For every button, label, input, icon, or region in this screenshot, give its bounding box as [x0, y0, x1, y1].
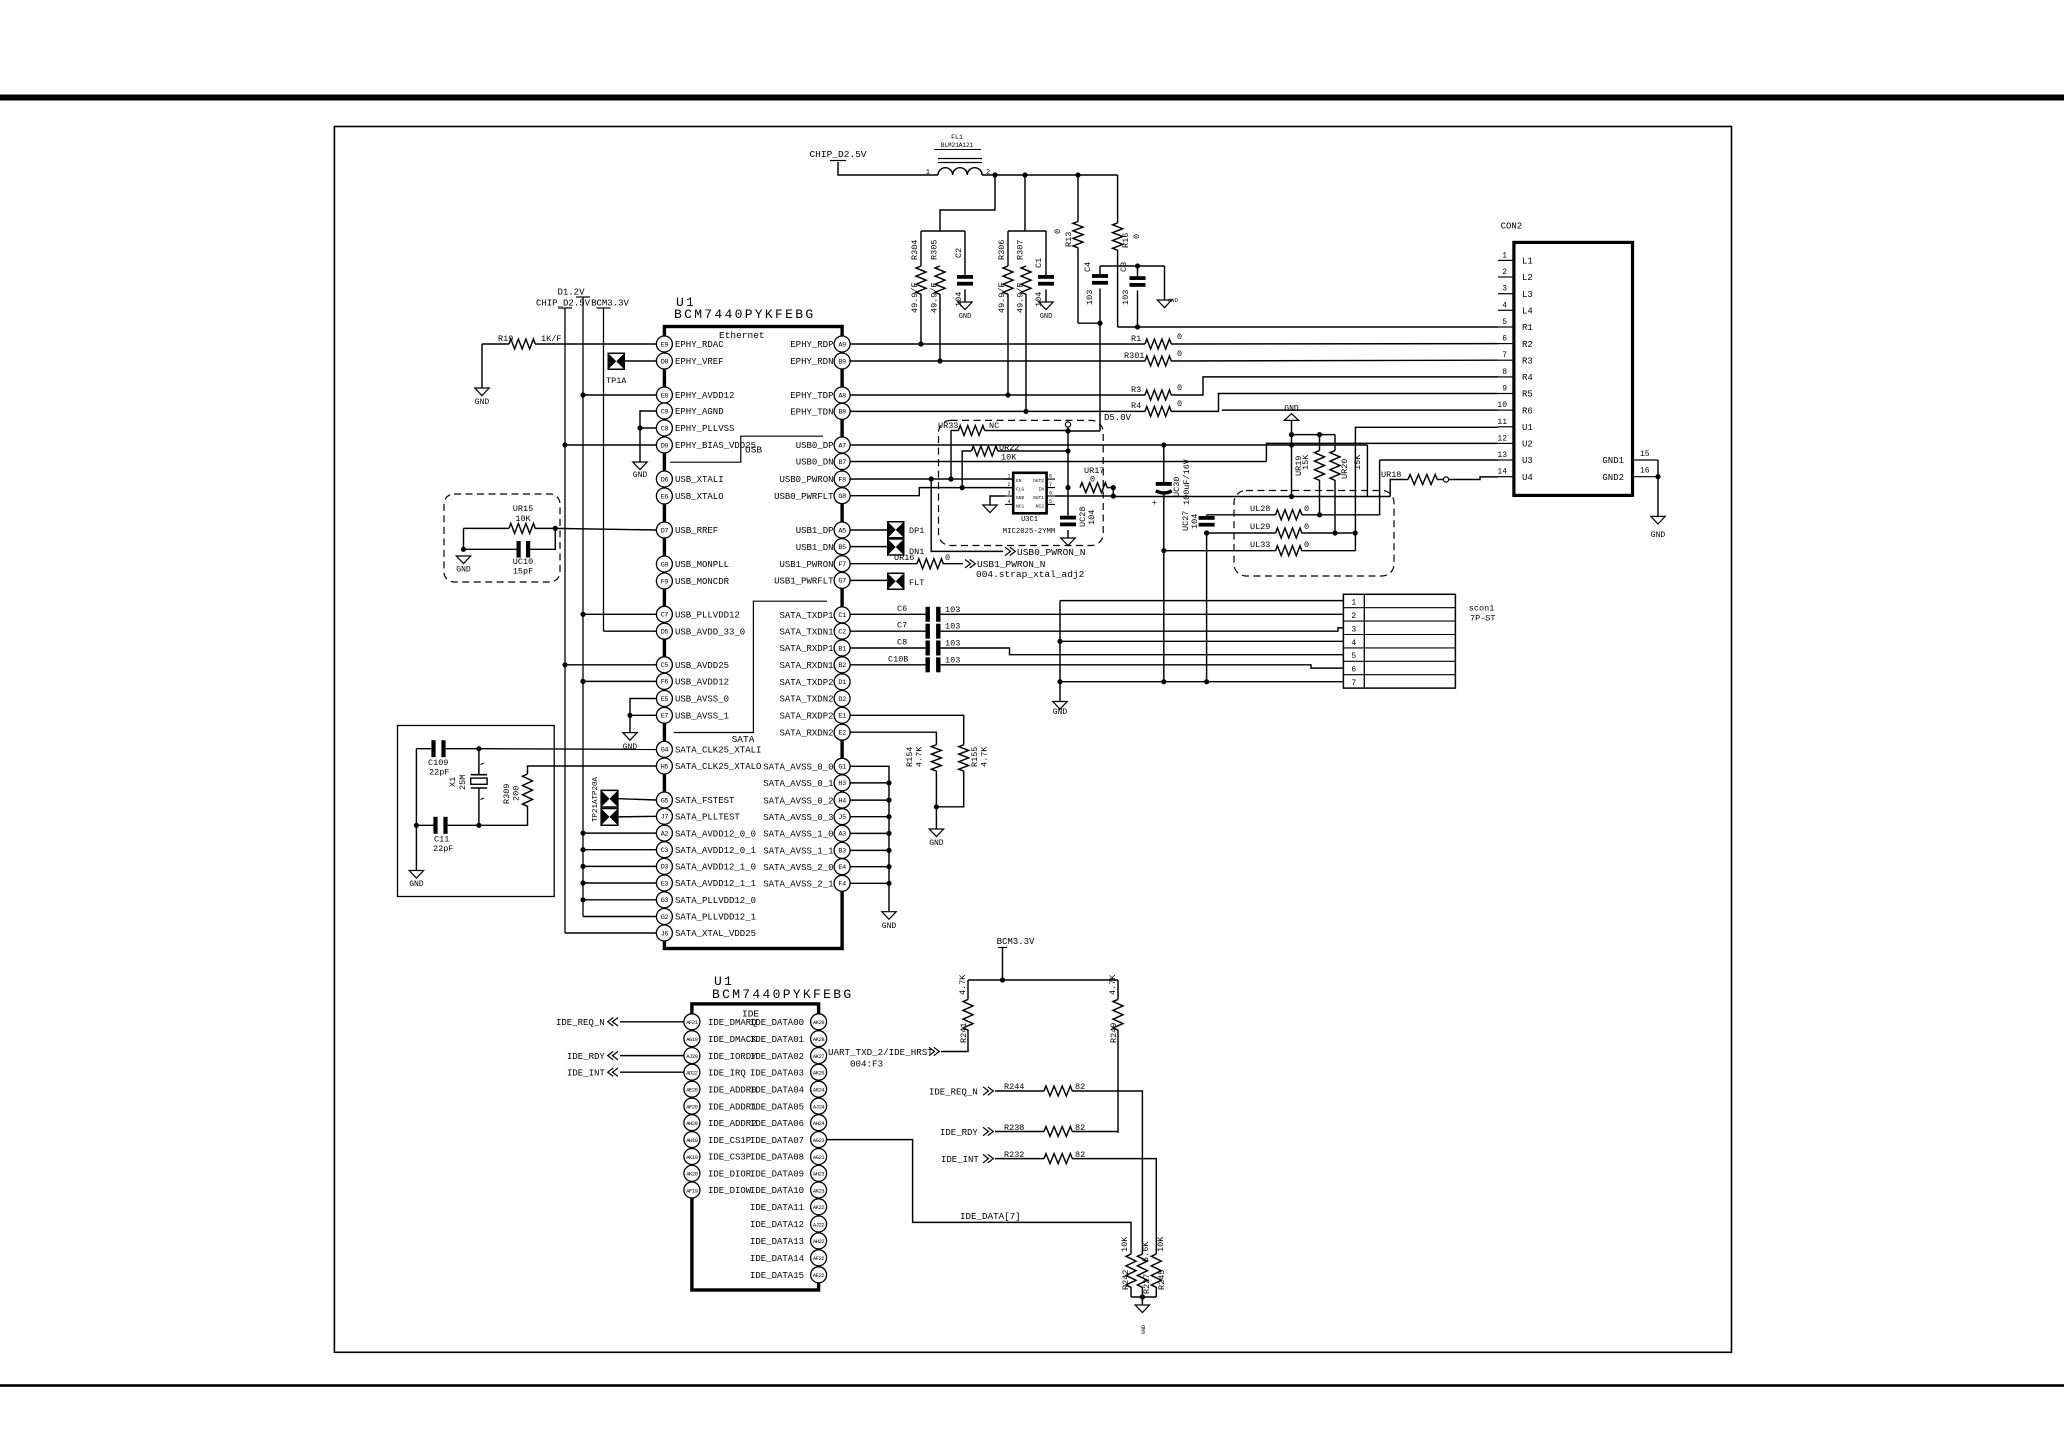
- svg-text:NC1: NC1: [1016, 504, 1025, 510]
- svg-text:E3: E3: [661, 880, 669, 888]
- pin C9 EPHY_AGND: [656, 403, 672, 419]
- pin B2 SATA_RXDN1: [834, 657, 850, 673]
- svg-text:IDE_INT: IDE_INT: [567, 1069, 605, 1079]
- svg-text:SATA_RXDP2: SATA_RXDP2: [779, 712, 833, 722]
- pin AH22 IDE_DATA13: [811, 1233, 827, 1249]
- svg-text:SATA_AVDD12_1_0: SATA_AVDD12_1_0: [675, 863, 756, 873]
- svg-text:A2: A2: [661, 830, 669, 838]
- wire crystal top row: [446, 748, 479, 750]
- pin AF19 IDE_DIOW: [684, 1182, 700, 1198]
- pin B8 EPHY_TDN: [834, 403, 850, 419]
- pin F6 USB_AVDD12: [656, 673, 672, 689]
- svg-text:SATA_PLLTEST: SATA_PLLTEST: [675, 813, 740, 823]
- pin AK27 IDE_DATA02: [811, 1048, 827, 1064]
- svg-text:10: 10: [1497, 401, 1507, 410]
- wire AVSS pin to bus: [850, 816, 889, 818]
- svg-text:USB_MONCDR: USB_MONCDR: [675, 577, 730, 587]
- svg-text:0: 0: [945, 553, 950, 563]
- svg-text:SATA_CLK25_XTALO: SATA_CLK25_XTALO: [675, 762, 761, 772]
- svg-text:USB_PLLVDD12: USB_PLLVDD12: [675, 611, 740, 621]
- svg-text:GND: GND: [929, 839, 944, 848]
- svg-text:0: 0: [1177, 399, 1182, 409]
- svg-text:L3: L3: [1522, 290, 1533, 300]
- svg-text:GND: GND: [882, 922, 897, 931]
- svg-text:0: 0: [1304, 540, 1309, 550]
- pin A5 USB1_DP: [834, 522, 850, 538]
- pin E5 USB_AVSS_0: [656, 691, 672, 707]
- svg-text:G8: G8: [838, 493, 846, 501]
- svg-text:5: 5: [1049, 499, 1052, 505]
- svg-text:C2: C2: [838, 629, 846, 637]
- svg-text:D2: D2: [838, 696, 846, 704]
- svg-text:R5: R5: [1522, 390, 1533, 400]
- ground (R19): [475, 388, 489, 396]
- wires UC10: [464, 528, 517, 549]
- svg-text:AK24: AK24: [813, 1088, 825, 1094]
- svg-text:B1: B1: [838, 645, 846, 653]
- CON2 pin 14 U4: [1498, 476, 1514, 478]
- svg-text:IDE_DATA11: IDE_DATA11: [750, 1203, 804, 1213]
- svg-text:SATA_AVSS_0_0: SATA_AVSS_0_0: [763, 763, 833, 773]
- svg-text:C6: C6: [897, 604, 907, 614]
- pin E4 SATA_AVSS_2_0: [834, 859, 850, 875]
- pin AJ20 IDE_IORDY: [684, 1048, 700, 1064]
- wire OUT1/UR17 node to right: [1113, 496, 1390, 498]
- svg-text:GND: GND: [959, 313, 972, 321]
- svg-text:C1: C1: [838, 612, 846, 620]
- svg-text:10K: 10K: [1156, 1236, 1166, 1252]
- pin H5 SATA_CLK25_XTALO: [656, 758, 672, 774]
- svg-text:7: 7: [1049, 482, 1052, 488]
- pin D2 SATA_TXDN2: [834, 691, 850, 707]
- group separator USB (stepped): [670, 436, 823, 462]
- CON2 pin 2 L2: [1498, 276, 1514, 278]
- svg-text:UC10: UC10: [513, 557, 533, 567]
- svg-text:AK20: AK20: [686, 1172, 698, 1178]
- svg-text:R4: R4: [1131, 401, 1141, 411]
- svg-text:2: 2: [986, 169, 990, 177]
- svg-text:IDE_IRQ: IDE_IRQ: [708, 1068, 746, 1078]
- svg-text:D1: D1: [838, 679, 846, 687]
- dashed box UR15/UC10: [444, 494, 560, 582]
- ground (USB_AVSS): [623, 733, 637, 741]
- test point FLT: [887, 573, 905, 591]
- svg-text:7: 7: [1351, 679, 1356, 688]
- svg-text:USB_AVDD25: USB_AVDD25: [675, 661, 729, 671]
- svg-text:10K: 10K: [1120, 1236, 1130, 1252]
- svg-text:SATA_TXDP1: SATA_TXDP1: [779, 611, 833, 621]
- svg-text:U3: U3: [1522, 456, 1533, 466]
- CON2 pin 7 R3: [1498, 359, 1514, 361]
- svg-text:E4: E4: [838, 864, 846, 872]
- svg-text:SATA_RXDN2: SATA_RXDN2: [779, 728, 833, 738]
- svg-text:IDE_CS3P: IDE_CS3P: [708, 1153, 751, 1163]
- pin A8 EPHY_TDP: [834, 387, 850, 403]
- svg-text:E2: E2: [838, 730, 846, 738]
- svg-text:USB1_PWRFLT: USB1_PWRFLT: [774, 577, 834, 587]
- svg-text:BLM21A121: BLM21A121: [941, 142, 974, 149]
- svg-text:EPHY_PLLVSS: EPHY_PLLVSS: [675, 424, 734, 434]
- svg-text:0: 0: [1304, 522, 1309, 532]
- svg-text:C7: C7: [661, 612, 669, 620]
- CON2 pin 4 L4: [1498, 309, 1514, 311]
- svg-text:103: 103: [945, 639, 960, 649]
- svg-text:103: 103: [945, 605, 960, 615]
- pin J7 SATA_PLLTEST: [656, 808, 672, 824]
- pin G3 SATA_PLLVDD12_0: [656, 892, 672, 908]
- svg-text:SATA_PLLVDD12_0: SATA_PLLVDD12_0: [675, 896, 756, 906]
- wire USB0_DN B7: [850, 461, 1266, 463]
- svg-text:NC: NC: [989, 421, 999, 431]
- svg-text:E8: E8: [661, 392, 669, 400]
- svg-text:USB0_PWRFLT: USB0_PWRFLT: [774, 492, 834, 502]
- wire CON2 pin10: [1222, 409, 1498, 411]
- svg-text:USB_MONPLL: USB_MONPLL: [675, 560, 729, 570]
- svg-text:AK26: AK26: [813, 1071, 825, 1077]
- CON2 pin 1 L1: [1498, 259, 1514, 261]
- svg-text:15K: 15K: [1353, 454, 1363, 470]
- svg-text:IDE_DATA04: IDE_DATA04: [750, 1085, 804, 1095]
- svg-text:AG23: AG23: [813, 1138, 825, 1144]
- pin C2 SATA_TXDN1: [834, 623, 850, 639]
- svg-text:E9: E9: [661, 341, 669, 349]
- wire rail to C7: [583, 613, 656, 615]
- svg-text:15K: 15K: [1301, 454, 1311, 470]
- svg-text:CHIP_D2.5V: CHIP_D2.5V: [809, 149, 866, 160]
- svg-text:GND1: GND1: [1602, 456, 1624, 466]
- pin C7 USB_PLLVDD12: [656, 606, 672, 622]
- svg-text:R227: R227: [1142, 1274, 1152, 1294]
- wire AVSS pin to bus: [850, 849, 889, 851]
- svg-text:AG21: AG21: [813, 1155, 825, 1161]
- svg-text:IDE_DATA03: IDE_DATA03: [750, 1068, 804, 1078]
- wire scon1 row1: [1060, 600, 1343, 602]
- svg-text:FLG: FLG: [1016, 487, 1025, 493]
- connector scon1 7P-ST: [1343, 594, 1455, 688]
- svg-text:SATA_AVSS_2_0: SATA_AVSS_2_0: [763, 863, 833, 873]
- wire TP21A to G5: [619, 799, 657, 800]
- pin AK20 IDE_DIOR: [684, 1165, 700, 1181]
- CON2 pin 12 U2: [1498, 442, 1514, 444]
- wire TP1A to D8: [625, 360, 656, 362]
- svg-text:EPHY_TDP: EPHY_TDP: [790, 391, 833, 401]
- svg-text:6: 6: [1049, 491, 1052, 497]
- wire G8 to U3C1 FLG: [850, 488, 1013, 496]
- svg-text:AD22: AD22: [686, 1071, 698, 1077]
- wire G7 to FLT: [850, 579, 887, 581]
- svg-text:UC30: UC30: [1172, 477, 1182, 497]
- svg-text:SATA_AVDD12_1_1: SATA_AVDD12_1_1: [675, 879, 756, 889]
- svg-text:OUT2: OUT2: [1033, 478, 1044, 484]
- svg-text:SATA_AVSS_1_0: SATA_AVSS_1_0: [763, 830, 833, 840]
- svg-text:BCM7440PYKFEBG: BCM7440PYKFEBG: [712, 987, 853, 1002]
- pin B7 USB0_DN: [834, 454, 850, 470]
- wire E2 to R154: [850, 732, 936, 745]
- svg-text:A9: A9: [838, 341, 846, 349]
- wire C4 node down to D5.0V node: [1099, 323, 1101, 431]
- svg-text:H3: H3: [838, 780, 846, 788]
- svg-text:A3: A3: [838, 831, 846, 839]
- svg-text:C7: C7: [897, 621, 907, 631]
- wire U3C1 GND pin3: [990, 496, 1005, 505]
- svg-text:F4: F4: [838, 881, 846, 889]
- svg-text:USB_AVSS_0: USB_AVSS_0: [675, 695, 729, 705]
- svg-text:C8: C8: [897, 638, 907, 648]
- svg-text:FL1: FL1: [951, 134, 963, 141]
- svg-text:H5: H5: [661, 763, 669, 771]
- wire R19 to GND: [481, 344, 483, 388]
- svg-text:A7: A7: [838, 442, 846, 450]
- rail D1.2V: [576, 296, 590, 298]
- pin AK29 IDE_DATA00: [811, 1014, 827, 1030]
- svg-text:104: 104: [1190, 514, 1200, 529]
- svg-text:J7: J7: [661, 814, 669, 822]
- svg-text:004:F3: 004:F3: [850, 1059, 883, 1070]
- svg-text:+: +: [1152, 499, 1157, 508]
- svg-text:EPHY_BIAS_VDD25: EPHY_BIAS_VDD25: [675, 441, 756, 451]
- CON2 pin 8 R4: [1498, 376, 1514, 378]
- pin J6 SATA_XTAL_VDD25: [656, 925, 672, 941]
- wire TP20A to J7: [619, 815, 657, 818]
- CON2 pin 13 U3: [1498, 459, 1514, 461]
- svg-text:U4: U4: [1522, 473, 1533, 483]
- svg-text:R16: R16: [1121, 233, 1131, 248]
- pin AF20 IDE_ADDR1: [684, 1098, 700, 1114]
- schematic frame: [334, 127, 1731, 1353]
- pin G1 SATA_AVSS_0_0: [834, 758, 850, 774]
- svg-text:GND: GND: [1141, 1325, 1147, 1334]
- pin E9 EPHY_RDAC: [656, 336, 672, 352]
- svg-text:5: 5: [1351, 652, 1356, 661]
- svg-text:G9: G9: [661, 561, 669, 569]
- svg-text:103: 103: [1085, 290, 1095, 305]
- wire rail to SATA_AVDD pin: [583, 849, 656, 851]
- svg-text:C11: C11: [434, 835, 449, 845]
- svg-text:AF22: AF22: [813, 1256, 825, 1262]
- svg-text:IDE_DATA05: IDE_DATA05: [750, 1102, 804, 1112]
- wire R16/C3 to CON2 pin5: [1118, 326, 1498, 328]
- svg-text:4.7K: 4.7K: [958, 974, 968, 995]
- svg-text:R304: R304: [910, 240, 920, 260]
- svg-text:EPHY_RDAC: EPHY_RDAC: [675, 340, 724, 350]
- svg-text:B7: B7: [838, 459, 846, 467]
- svg-text:BCM3.3V: BCM3.3V: [591, 299, 629, 309]
- wire B5 to DN1: [850, 546, 887, 548]
- wire B9 row: [850, 360, 1145, 362]
- svg-text:USB1_PWRON: USB1_PWRON: [779, 560, 833, 570]
- svg-text:SATA_FSTEST: SATA_FSTEST: [675, 796, 735, 806]
- wire rail to SATA_AVDD pin: [583, 865, 656, 867]
- wire USB0_DP A7: [850, 444, 1367, 446]
- svg-text:R3: R3: [1131, 385, 1141, 395]
- svg-text:IDE_DATA02: IDE_DATA02: [750, 1052, 804, 1062]
- svg-text:IDE_DIOR: IDE_DIOR: [708, 1170, 752, 1180]
- svg-text:4: 4: [1008, 499, 1011, 505]
- test point DP1: [887, 521, 905, 539]
- svg-text:UART_TXD_2/IDE_HRST: UART_TXD_2/IDE_HRST: [828, 1047, 933, 1058]
- svg-text:SATA_RXDP1: SATA_RXDP1: [779, 644, 833, 654]
- svg-text:USB_AVDD12: USB_AVDD12: [675, 678, 729, 688]
- pin D5 USB_AVDD_33_0: [656, 623, 672, 639]
- svg-text:IN: IN: [1038, 487, 1044, 493]
- svg-text:IDE_DATA08: IDE_DATA08: [750, 1153, 804, 1163]
- svg-text:IDE_DATA[7]: IDE_DATA[7]: [960, 1211, 1021, 1222]
- pin AG23 IDE_DATA07: [811, 1132, 827, 1148]
- svg-text:SATA_AVSS_1_1: SATA_AVSS_1_1: [763, 847, 833, 857]
- svg-text:6: 6: [1351, 666, 1356, 675]
- svg-text:AE20: AE20: [686, 1088, 698, 1094]
- wire rail to G2: [583, 916, 656, 918]
- svg-text:B2: B2: [838, 662, 846, 670]
- svg-text:TP1A: TP1A: [606, 376, 627, 386]
- pin B9 EPHY_RDN: [834, 353, 850, 369]
- svg-text:R2: R2: [1522, 340, 1533, 350]
- svg-text:R1: R1: [1522, 323, 1533, 333]
- pin B3 SATA_AVSS_1_1: [834, 842, 850, 858]
- svg-text:R155: R155: [970, 747, 980, 767]
- svg-text:C3: C3: [661, 847, 669, 855]
- svg-text:11: 11: [1497, 418, 1507, 427]
- svg-text:0: 0: [1090, 475, 1095, 485]
- wire AVSS pin to bus: [850, 882, 889, 884]
- svg-text:4: 4: [1502, 301, 1507, 310]
- svg-text:R4: R4: [1522, 373, 1533, 383]
- pin F7 USB1_PWRON: [834, 556, 850, 572]
- svg-text:USB0_PWRON_N: USB0_PWRON_N: [1017, 547, 1085, 558]
- capacitor UC10 15pF: [517, 541, 521, 558]
- gnd line for C4/C3 tops: [1100, 265, 1165, 267]
- wire C9/C8 to GND: [640, 411, 656, 462]
- pin H3 SATA_AVSS_0_1: [834, 775, 850, 791]
- svg-text:3: 3: [1351, 625, 1356, 634]
- pin AG21 IDE_DATA08: [811, 1149, 827, 1165]
- svg-text:C1: C1: [1034, 258, 1044, 268]
- svg-text:1: 1: [1351, 599, 1356, 608]
- wire rail to SATA_AVDD pin: [583, 882, 656, 884]
- wire HRST to R241: [941, 1030, 968, 1052]
- ground (AVSS bus): [882, 912, 896, 920]
- svg-text:G7: G7: [838, 578, 846, 586]
- svg-text:AE22: AE22: [813, 1273, 825, 1279]
- svg-text:AH22: AH22: [813, 1239, 825, 1245]
- wire rail to D9: [565, 444, 656, 446]
- pin A2 SATA_AVDD12_0_0: [656, 825, 672, 841]
- wire left leg + ground: [415, 749, 417, 871]
- svg-text:7P-ST: 7P-ST: [1470, 614, 1496, 624]
- node R13/C4: [1078, 322, 1100, 324]
- pin AK26 IDE_DATA03: [811, 1064, 827, 1080]
- pin E1 SATA_RXDP2: [834, 707, 850, 723]
- test point TP1A: [608, 353, 626, 371]
- ground (EPHY_AGND): [633, 462, 647, 470]
- pin AE20 IDE_ADDR0: [684, 1081, 700, 1097]
- wire E1 to R155: [850, 715, 964, 745]
- svg-text:49.9/F: 49.9/F: [930, 282, 940, 313]
- svg-text:C9: C9: [661, 408, 669, 416]
- pin G5 SATA_FSTEST: [656, 792, 672, 808]
- svg-text:G1: G1: [838, 764, 846, 772]
- svg-text:7: 7: [1502, 351, 1507, 360]
- pin D1 SATA_TXDP2: [834, 674, 850, 690]
- wire B8 row: [850, 410, 1145, 412]
- svg-text:SATA_XTAL_VDD25: SATA_XTAL_VDD25: [675, 929, 756, 939]
- svg-text:4.7K: 4.7K: [1108, 974, 1118, 995]
- pin F8 USB0_PWRON: [834, 471, 850, 487]
- svg-text:SATA_AVSS_0_1: SATA_AVSS_0_1: [763, 779, 833, 789]
- svg-text:G3: G3: [661, 897, 669, 905]
- svg-text:SATA_AVSS_0_2: SATA_AVSS_0_2: [763, 796, 833, 806]
- pin A9 EPHY_RDP: [834, 336, 850, 352]
- svg-text:USB0_DP: USB0_DP: [796, 441, 834, 451]
- svg-text:0: 0: [1177, 383, 1182, 393]
- svg-text:1K/F: 1K/F: [541, 334, 561, 344]
- scon1 GND bus: [1059, 601, 1061, 702]
- svg-text:104: 104: [954, 292, 964, 307]
- wire A5 to DP1: [850, 529, 887, 531]
- dashed box UL resistors: [1234, 491, 1394, 577]
- svg-text:GND: GND: [1016, 495, 1025, 501]
- svg-text:AK27: AK27: [813, 1054, 825, 1060]
- svg-text:D1.2V: D1.2V: [557, 288, 585, 298]
- svg-text:IDE_DATA13: IDE_DATA13: [750, 1237, 804, 1247]
- svg-text:2: 2: [1008, 482, 1011, 488]
- svg-text:GND: GND: [409, 880, 424, 889]
- svg-text:EPHY_RDP: EPHY_RDP: [790, 340, 833, 350]
- svg-text:NC2: NC2: [1036, 504, 1045, 510]
- svg-text:USB_RREF: USB_RREF: [675, 526, 718, 536]
- svg-text:SATA_CLK25_XTALI: SATA_CLK25_XTALI: [675, 746, 761, 756]
- wire scon1 row4: [1060, 640, 1343, 642]
- svg-text:SATA_AVDD12_0_1: SATA_AVDD12_0_1: [675, 846, 756, 856]
- svg-text:UR16: UR16: [894, 553, 914, 563]
- wire AG23 IDE_DATA07 route: [827, 1140, 1131, 1254]
- svg-text:E7: E7: [661, 713, 669, 721]
- svg-text:12: 12: [1497, 434, 1507, 443]
- svg-text:15pF: 15pF: [513, 567, 533, 577]
- svg-text:U2: U2: [1522, 440, 1533, 450]
- svg-text:IDE_REQ_N: IDE_REQ_N: [556, 1018, 605, 1028]
- svg-text:CON2: CON2: [1501, 222, 1523, 232]
- wire rail to C5: [565, 664, 656, 666]
- wire A9 row: [850, 343, 1145, 345]
- svg-text:0: 0: [1053, 229, 1063, 234]
- svg-text:AH20: AH20: [686, 1121, 698, 1127]
- svg-text:U1: U1: [1522, 423, 1533, 433]
- pin F4 SATA_AVSS_2_1: [834, 875, 850, 891]
- svg-text:USB1_DN: USB1_DN: [796, 543, 834, 553]
- svg-text:AK19: AK19: [686, 1155, 698, 1161]
- D5.0V stem: [1067, 427, 1069, 516]
- svg-text:AJ24: AJ24: [813, 1104, 825, 1110]
- CON2 pin 10 R6: [1498, 409, 1514, 411]
- wire E5/E7 to GND: [630, 699, 656, 733]
- ground (UC28): [1061, 538, 1075, 546]
- svg-text:15: 15: [1640, 450, 1650, 459]
- svg-text:D5: D5: [661, 629, 669, 637]
- svg-text:2: 2: [1351, 612, 1356, 621]
- svg-text:IDE_INT: IDE_INT: [941, 1155, 979, 1165]
- svg-text:G2: G2: [661, 914, 669, 922]
- svg-text:F9: F9: [661, 578, 669, 586]
- svg-text:C10B: C10B: [888, 654, 908, 664]
- svg-text:GND: GND: [1053, 708, 1068, 717]
- svg-text:F7: F7: [838, 561, 846, 569]
- vertical join pin13 line to UL28: [1379, 460, 1381, 515]
- svg-text:IDE_DATA09: IDE_DATA09: [750, 1170, 804, 1180]
- svg-text:A8: A8: [838, 392, 846, 400]
- svg-text:R306: R306: [997, 240, 1007, 260]
- svg-text:3: 3: [1008, 491, 1011, 497]
